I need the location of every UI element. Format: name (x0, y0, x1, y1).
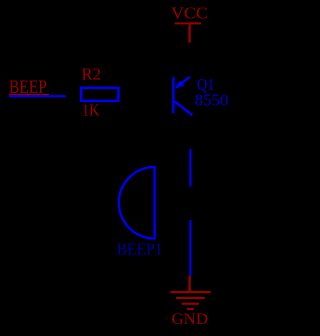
svg-text:GND: GND (172, 311, 209, 328)
ground symbol (170, 276, 210, 310)
wire buzzer to ground (189, 220, 191, 276)
svg-text:R2: R2 (82, 65, 102, 84)
transistor Q1 (PNP 8550) (172, 77, 192, 115)
buzzer BEEP1 body (119, 167, 155, 239)
wire collector to buzzer (189, 149, 191, 187)
wire BEEP to R2 (9, 95, 66, 97)
svg-text:8550: 8550 (195, 91, 229, 110)
power VCC symbol (175, 22, 201, 42)
svg-text:1K: 1K (82, 100, 100, 119)
svg-text:VCC: VCC (171, 4, 208, 23)
net label BEEP (9, 78, 49, 98)
resistor R2 body (81, 88, 118, 101)
svg-text:BEEP1: BEEP1 (117, 240, 163, 259)
